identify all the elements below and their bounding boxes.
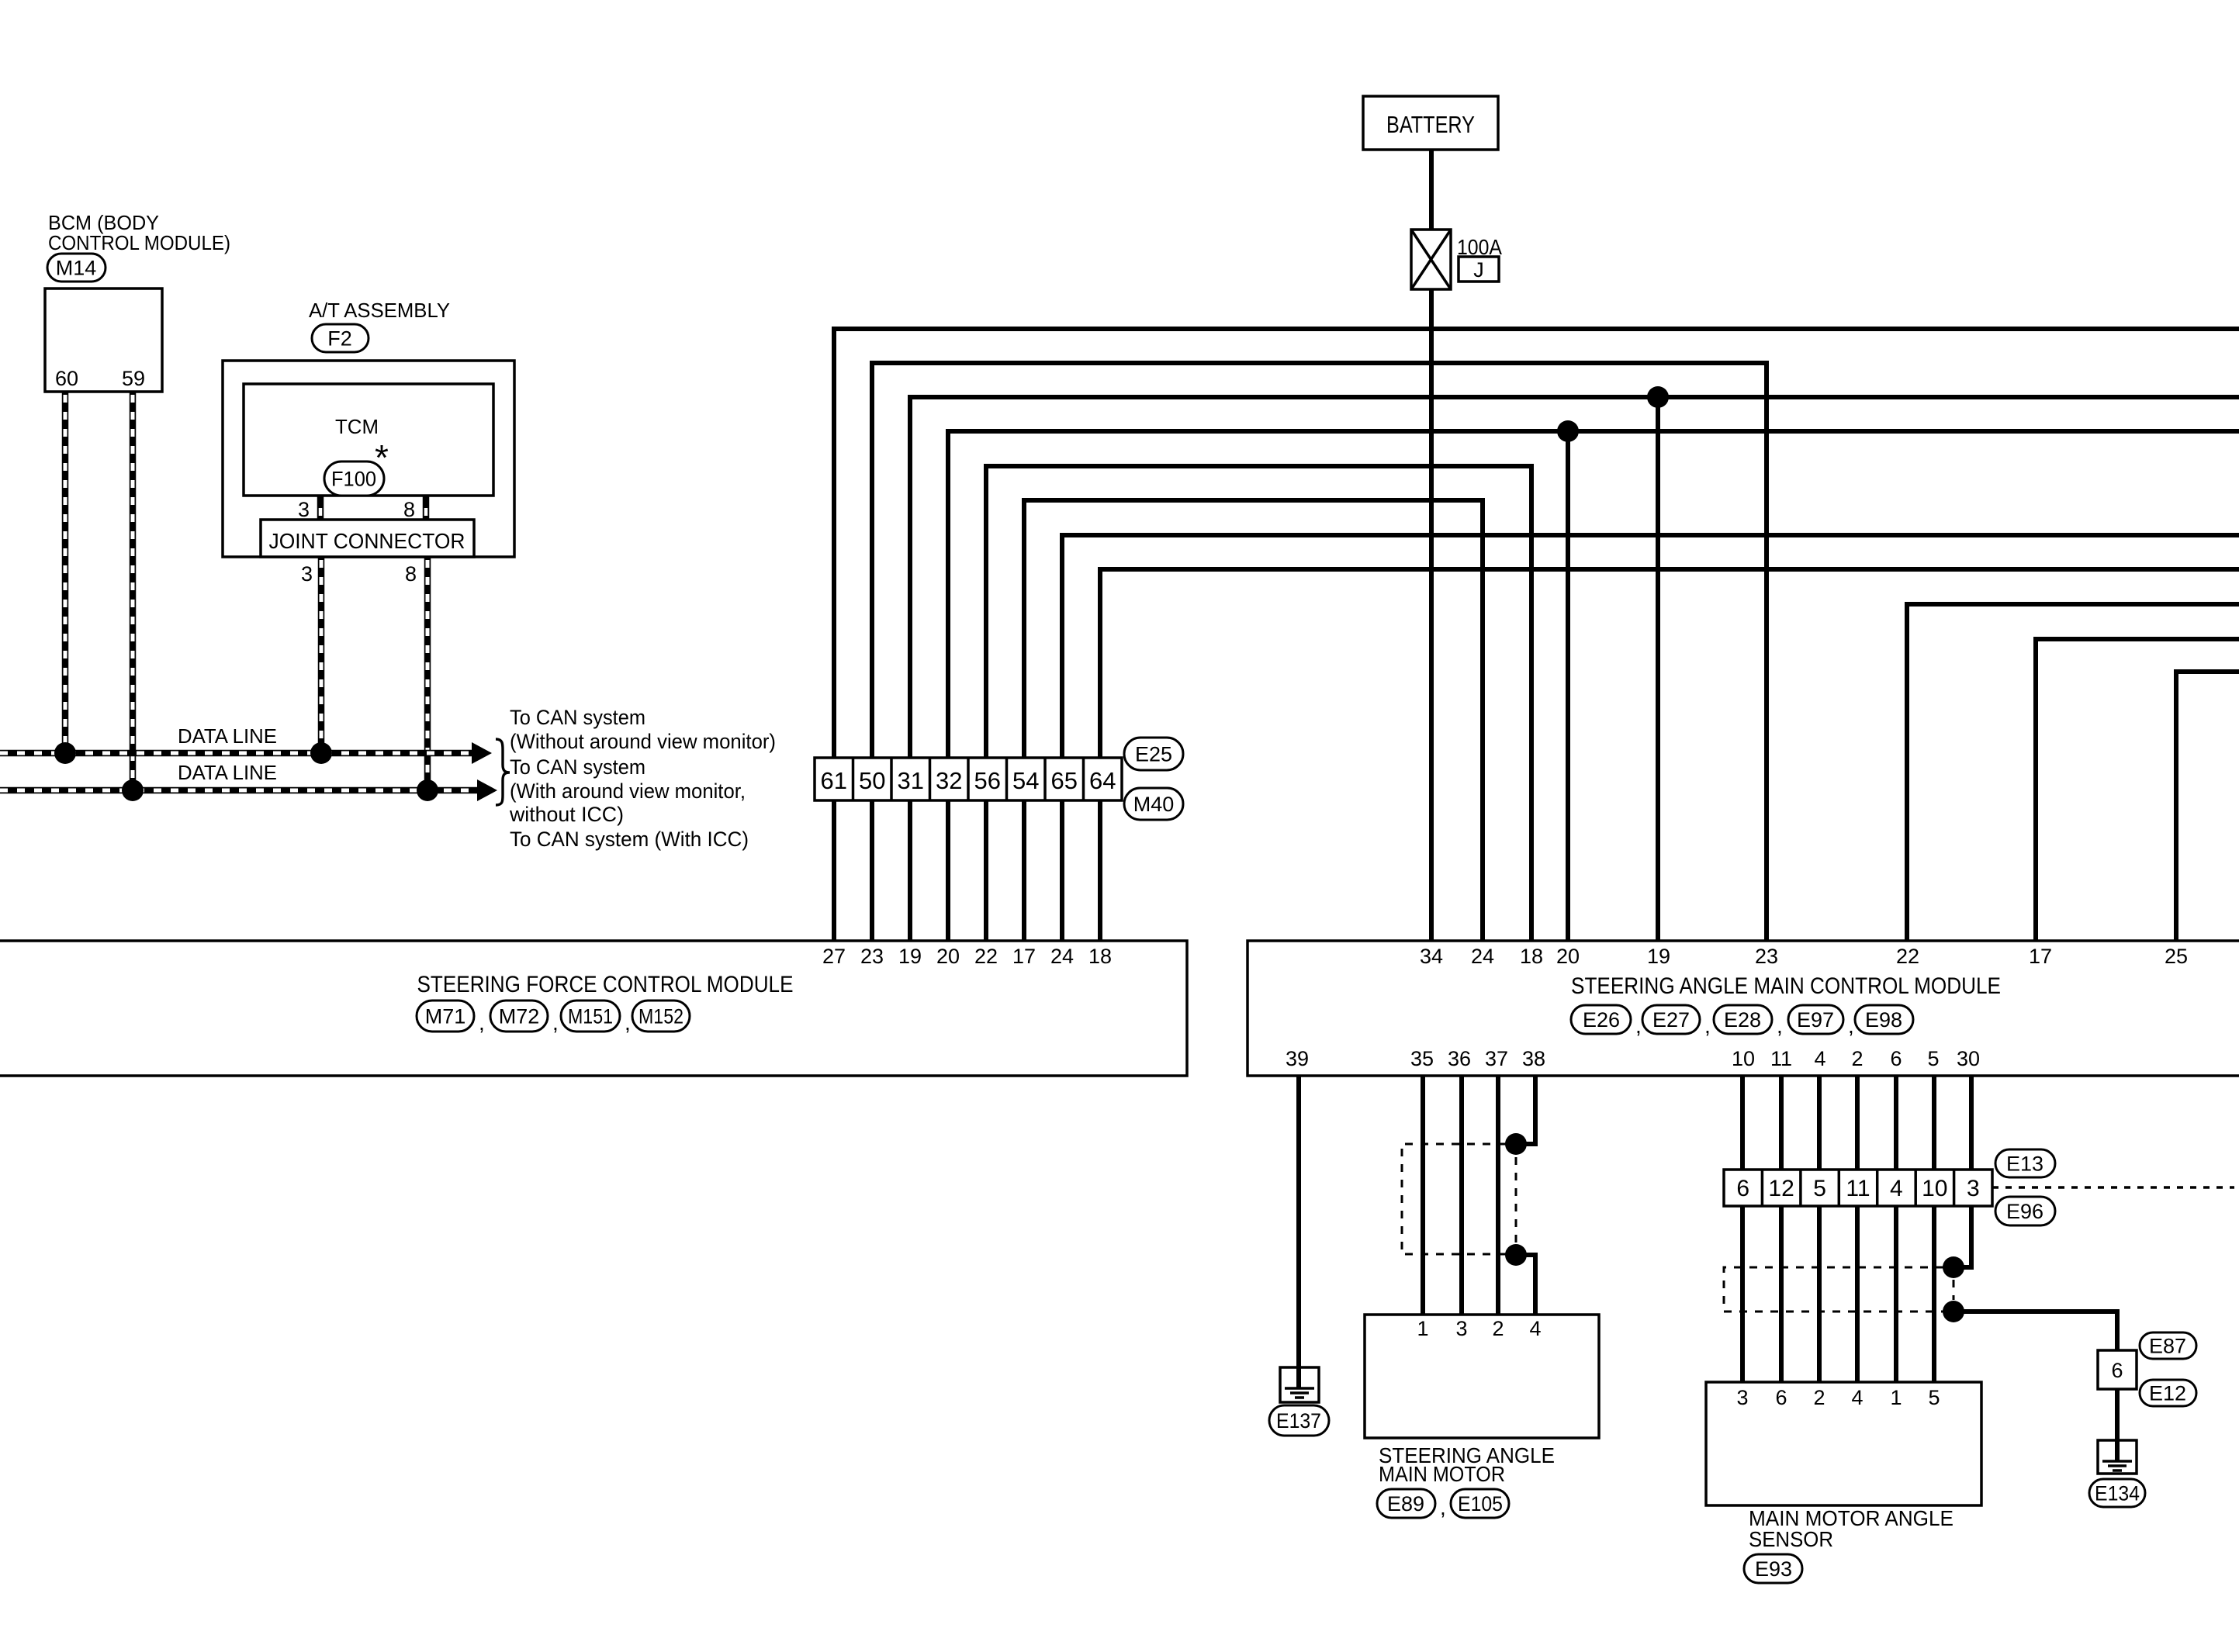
svg-text:2: 2 bbox=[1851, 1047, 1863, 1070]
svg-text:STEERING FORCE CONTROL MODULE: STEERING FORCE CONTROL MODULE bbox=[417, 972, 794, 997]
svg-text:18: 18 bbox=[1520, 945, 1543, 968]
svg-text:61: 61 bbox=[821, 767, 847, 794]
svg-text:E28: E28 bbox=[1724, 1008, 1761, 1032]
svg-text:(With around view monitor,: (With around view monitor, bbox=[510, 779, 746, 803]
connector M71 bbox=[417, 1001, 474, 1032]
junction pin38 lower bbox=[1505, 1244, 1527, 1266]
connector F2 bbox=[312, 324, 369, 352]
connector E87 bbox=[2140, 1332, 2196, 1359]
connector E89 bbox=[1377, 1489, 1435, 1518]
svg-text:DATA LINE: DATA LINE bbox=[178, 724, 277, 748]
wire pin37 to motor bbox=[1496, 1076, 1500, 1315]
svg-text:19: 19 bbox=[1647, 945, 1670, 968]
svg-text:M151: M151 bbox=[568, 1005, 613, 1028]
svg-text:35: 35 bbox=[1410, 1047, 1434, 1070]
svg-text:27: 27 bbox=[822, 945, 846, 968]
wire BCM pin59 to DATA LINE (shield) bbox=[130, 392, 137, 790]
svg-text:STEERING ANGLE MAIN CONTROL MO: STEERING ANGLE MAIN CONTROL MODULE bbox=[1571, 973, 2001, 999]
dashed variant wire between junctions bbox=[1953, 1280, 1955, 1300]
svg-text:E93: E93 bbox=[1755, 1557, 1792, 1581]
svg-text:,: , bbox=[1635, 1014, 1642, 1038]
motor pin labels 1 3 2 4 bbox=[1417, 1317, 1541, 1340]
wire pin35 to motor bbox=[1421, 1076, 1425, 1315]
svg-text:24: 24 bbox=[1471, 945, 1494, 968]
svg-text:M40: M40 bbox=[1133, 793, 1175, 816]
wire joint connector pin8 to DATA LINE (shield) bbox=[424, 557, 431, 790]
svg-text:50: 50 bbox=[859, 767, 885, 794]
connector M14 bbox=[47, 254, 106, 282]
svg-text:3: 3 bbox=[301, 562, 313, 586]
connector E105 bbox=[1451, 1489, 1509, 1518]
svg-text:4: 4 bbox=[1529, 1317, 1541, 1340]
svg-text:E12: E12 bbox=[2149, 1382, 2186, 1405]
svg-text:3: 3 bbox=[1455, 1317, 1467, 1340]
connector E12 bbox=[2140, 1380, 2196, 1406]
svg-text:5: 5 bbox=[1928, 1386, 1940, 1409]
svg-text:10: 10 bbox=[1732, 1047, 1755, 1070]
svg-text:8: 8 bbox=[405, 562, 417, 586]
connector M40 bbox=[1124, 788, 1183, 820]
sensor pin labels 3 6 2 4 1 5 bbox=[1736, 1386, 1940, 1409]
svg-text:64: 64 bbox=[1089, 767, 1116, 794]
svg-text:5: 5 bbox=[1813, 1176, 1826, 1201]
svg-text:17: 17 bbox=[2029, 945, 2052, 968]
junction BCM59/DATA LINE 2 bbox=[122, 779, 144, 801]
module STEERING ANGLE MAIN MOTOR box bbox=[1365, 1315, 1599, 1438]
svg-text:,: , bbox=[1848, 1014, 1854, 1038]
svg-text:E137: E137 bbox=[1276, 1409, 1321, 1433]
connector row E25/M40 bbox=[815, 758, 1122, 800]
svg-text:4: 4 bbox=[1814, 1047, 1825, 1070]
module STEERING ANGLE MAIN CONTROL MODULE box bbox=[1248, 941, 2239, 1076]
variant dashed rect (motor harness) bbox=[1402, 1144, 1506, 1254]
svg-text:10: 10 bbox=[1922, 1176, 1947, 1201]
wire net right pin17 to right edge bbox=[2036, 639, 2239, 941]
svg-text:A/T ASSEMBLY: A/T ASSEMBLY bbox=[309, 299, 450, 322]
svg-text:without ICC): without ICC) bbox=[509, 803, 624, 826]
wire tap to right pin19 bbox=[1656, 397, 1660, 941]
svg-text:32: 32 bbox=[936, 767, 962, 794]
connector E26 bbox=[1571, 1005, 1631, 1034]
wire pin30 down to junction bbox=[1954, 1076, 1971, 1267]
svg-text:E134: E134 bbox=[2095, 1482, 2140, 1505]
wire pin38 lower segment to motor pin4 bbox=[1516, 1255, 1535, 1315]
svg-text:To CAN system: To CAN system bbox=[510, 755, 645, 779]
svg-text:38: 38 bbox=[1522, 1047, 1545, 1070]
svg-text:19: 19 bbox=[898, 945, 922, 968]
svg-text:22: 22 bbox=[974, 945, 998, 968]
junction net20 bbox=[1557, 420, 1579, 442]
fuse block J box bbox=[1459, 257, 1499, 282]
svg-text:3: 3 bbox=[298, 498, 310, 521]
wire net pin19: left module to right edge, tap to right pin19 bbox=[910, 397, 2239, 941]
connector M151 bbox=[561, 1001, 620, 1032]
svg-text:4: 4 bbox=[1851, 1386, 1863, 1409]
wire fuse to pin34 (battery feed) bbox=[1429, 289, 1434, 941]
svg-text:6: 6 bbox=[1775, 1386, 1787, 1409]
svg-text:To CAN system (With ICC): To CAN system (With ICC) bbox=[510, 828, 749, 851]
svg-text:BATTERY: BATTERY bbox=[1386, 111, 1475, 138]
svg-text:1: 1 bbox=[1890, 1386, 1902, 1409]
connector M152 bbox=[632, 1001, 690, 1032]
wire net: left pin17 to right pin24 bbox=[1024, 500, 1483, 941]
connector E137 bbox=[1269, 1405, 1329, 1436]
wire net pin20: left module to right edge, tap to right pin20 bbox=[948, 431, 2239, 941]
connector E25 bbox=[1124, 738, 1183, 770]
svg-text:E27: E27 bbox=[1652, 1008, 1690, 1032]
junction pin30 upper bbox=[1943, 1256, 1964, 1278]
svg-text:25: 25 bbox=[2165, 945, 2188, 968]
wire TCM pin8 stub (shield) bbox=[423, 496, 430, 520]
wire net pin27-left: corner to right edge bbox=[834, 329, 2239, 941]
svg-text:J: J bbox=[1473, 258, 1484, 282]
DATA LINE 2 (CAN) wire with arrow bbox=[0, 779, 497, 801]
ground symbol (E137) bbox=[1280, 1367, 1319, 1402]
svg-text:5: 5 bbox=[1927, 1047, 1939, 1070]
fuse 100A J bbox=[1411, 230, 1451, 289]
svg-text:6: 6 bbox=[1890, 1047, 1902, 1070]
svg-text:30: 30 bbox=[1957, 1047, 1980, 1070]
svg-text:(Without around view monitor): (Without around view monitor) bbox=[510, 730, 776, 753]
wire net: left pin22 to right pin18 bbox=[986, 466, 1531, 941]
svg-text:E98: E98 bbox=[1865, 1008, 1902, 1032]
svg-text:36: 36 bbox=[1448, 1047, 1471, 1070]
svg-text:M152: M152 bbox=[638, 1005, 683, 1028]
pin labels top (steering angle module) bbox=[1420, 945, 2188, 968]
note: To CAN system destinations bbox=[509, 706, 776, 851]
module MAIN MOTOR ANGLE SENSOR box bbox=[1706, 1382, 1981, 1505]
connector E28 bbox=[1714, 1005, 1772, 1034]
wire TCM pin3 stub (shield) bbox=[317, 496, 324, 520]
svg-text:2: 2 bbox=[1492, 1317, 1504, 1340]
svg-text:E96: E96 bbox=[2006, 1200, 2043, 1223]
junction net19 bbox=[1647, 386, 1669, 408]
wire net pin23: left module to right module pin23 bbox=[872, 363, 1767, 941]
svg-text:DATA LINE: DATA LINE bbox=[178, 761, 277, 784]
svg-text:JOINT CONNECTOR: JOINT CONNECTOR bbox=[269, 529, 465, 553]
svg-text:12: 12 bbox=[1768, 1176, 1794, 1201]
svg-text:E26: E26 bbox=[1583, 1008, 1620, 1032]
brace grouping CAN destinations bbox=[496, 739, 510, 805]
svg-text:TCM: TCM bbox=[335, 415, 379, 438]
wire net right pin25 to right edge bbox=[2176, 672, 2239, 941]
svg-text:65: 65 bbox=[1051, 767, 1078, 794]
junction pin38 upper bbox=[1505, 1133, 1527, 1155]
svg-text:3: 3 bbox=[1736, 1386, 1748, 1409]
BCM box bbox=[45, 289, 162, 392]
svg-text:59: 59 bbox=[122, 367, 145, 390]
STEERING ANGLE MAIN MOTOR label bbox=[1379, 1443, 1555, 1486]
TCM box bbox=[244, 384, 493, 496]
connector E134 bbox=[2089, 1479, 2145, 1507]
svg-text:M14: M14 bbox=[56, 257, 97, 280]
svg-text:22: 22 bbox=[1896, 945, 1919, 968]
dashed variant wire between junctions bbox=[1515, 1157, 1517, 1243]
connector E13 bbox=[1995, 1149, 2055, 1177]
wire pin38 upper segment bbox=[1516, 1076, 1535, 1144]
svg-text:11: 11 bbox=[1770, 1047, 1792, 1070]
svg-text:23: 23 bbox=[1755, 945, 1778, 968]
junction pin30 lower bbox=[1943, 1301, 1964, 1322]
MAIN MOTOR ANGLE SENSOR label bbox=[1749, 1506, 1954, 1551]
wire BCM pin60 to DATA LINE (shield) bbox=[62, 392, 69, 753]
junction JC3/DATA LINE 1 bbox=[310, 742, 332, 764]
DATA LINE 1 (CAN) wire with arrow bbox=[0, 742, 492, 764]
svg-text:24: 24 bbox=[1050, 945, 1074, 968]
svg-text:6: 6 bbox=[1736, 1176, 1749, 1201]
svg-text:56: 56 bbox=[974, 767, 1001, 794]
junction BCM60/DATA LINE 1 bbox=[54, 742, 76, 764]
svg-text:F100: F100 bbox=[331, 468, 376, 491]
connector E27 bbox=[1642, 1005, 1700, 1034]
connector E96 bbox=[1995, 1197, 2055, 1225]
svg-text:60: 60 bbox=[55, 367, 78, 390]
svg-text:,: , bbox=[552, 1011, 559, 1035]
svg-text:1: 1 bbox=[1417, 1317, 1428, 1340]
svg-text:,: , bbox=[625, 1011, 631, 1035]
svg-text:,: , bbox=[1440, 1495, 1446, 1519]
wire connector6 to ground bbox=[2115, 1389, 2120, 1461]
connector row E13/E96 bbox=[1724, 1170, 1992, 1206]
wire tap to right pin20 bbox=[1566, 431, 1570, 941]
svg-text:39: 39 bbox=[1286, 1047, 1309, 1070]
wire pin36 to motor bbox=[1459, 1076, 1464, 1315]
svg-text:37: 37 bbox=[1485, 1047, 1508, 1070]
svg-text:31: 31 bbox=[898, 767, 924, 794]
wires module bottom pins to sensor connector bbox=[1742, 1076, 1934, 1382]
connector M72 bbox=[490, 1001, 548, 1032]
ground symbol (E134) bbox=[2098, 1440, 2137, 1474]
svg-text:6: 6 bbox=[2111, 1359, 2123, 1382]
junction JC8/DATA LINE 2 bbox=[417, 779, 438, 801]
wire net pin18-left to right edge bbox=[1100, 569, 2239, 941]
svg-text:,: , bbox=[479, 1011, 485, 1035]
svg-text:3: 3 bbox=[1967, 1176, 1980, 1201]
svg-text:E89: E89 bbox=[1387, 1492, 1424, 1515]
svg-text:F2: F2 bbox=[327, 327, 352, 351]
connector E98 bbox=[1855, 1005, 1913, 1034]
svg-text:E25: E25 bbox=[1135, 743, 1172, 766]
A/T ASSEMBLY box bbox=[223, 361, 514, 557]
svg-text:,: , bbox=[1777, 1014, 1783, 1038]
module STEERING FORCE CONTROL MODULE box bbox=[0, 941, 1187, 1076]
svg-text:To CAN system: To CAN system bbox=[510, 706, 645, 729]
svg-text:17: 17 bbox=[1012, 945, 1036, 968]
wire net pin24-left to right edge bbox=[1062, 535, 2239, 941]
svg-text:,: , bbox=[1704, 1014, 1711, 1038]
wire battery to fuse bbox=[1429, 150, 1434, 230]
svg-text:E105: E105 bbox=[1458, 1492, 1503, 1515]
battery BATTERY bbox=[1363, 96, 1498, 150]
connector F100 bbox=[324, 461, 384, 496]
svg-text:2: 2 bbox=[1813, 1386, 1825, 1409]
wire net right pin22 to right edge bbox=[1907, 604, 2239, 941]
dotted continuation line bbox=[1992, 1186, 2234, 1188]
svg-text:54: 54 bbox=[1012, 767, 1039, 794]
connector 6 box (E87/E12) bbox=[2098, 1350, 2137, 1389]
svg-text:34: 34 bbox=[1420, 945, 1443, 968]
svg-text:8: 8 bbox=[403, 498, 415, 521]
svg-text:20: 20 bbox=[1556, 945, 1580, 968]
svg-text:CONTROL MODULE): CONTROL MODULE) bbox=[48, 231, 230, 254]
connector E93 bbox=[1744, 1554, 1802, 1583]
svg-text:SENSOR: SENSOR bbox=[1749, 1527, 1833, 1551]
svg-text:4: 4 bbox=[1890, 1176, 1903, 1201]
svg-text:M72: M72 bbox=[499, 1005, 540, 1028]
svg-text:11: 11 bbox=[1846, 1176, 1870, 1201]
pin labels top (steering force module) bbox=[822, 945, 1112, 968]
svg-text:E87: E87 bbox=[2149, 1335, 2186, 1358]
wire junction to connector 6 (E87/E12) bbox=[1954, 1312, 2117, 1350]
svg-text:E13: E13 bbox=[2006, 1153, 2043, 1176]
svg-text:M71: M71 bbox=[425, 1005, 466, 1028]
module BCM (BODY CONTROL MODULE) label bbox=[48, 211, 230, 254]
wire joint connector pin3 to DATA LINE (shield) bbox=[318, 557, 325, 753]
pin labels bottom (steering angle module) bbox=[1286, 1047, 1980, 1070]
wire pin39 to ground bbox=[1296, 1076, 1301, 1388]
svg-text:18: 18 bbox=[1088, 945, 1112, 968]
svg-text:20: 20 bbox=[936, 945, 960, 968]
connector E97 bbox=[1788, 1005, 1843, 1034]
svg-text:MAIN MOTOR: MAIN MOTOR bbox=[1379, 1462, 1505, 1486]
svg-text:E97: E97 bbox=[1797, 1008, 1834, 1032]
variant dashed rect (sensor harness) bbox=[1724, 1267, 1943, 1312]
svg-text:23: 23 bbox=[860, 945, 884, 968]
JOINT CONNECTOR box bbox=[261, 520, 474, 557]
